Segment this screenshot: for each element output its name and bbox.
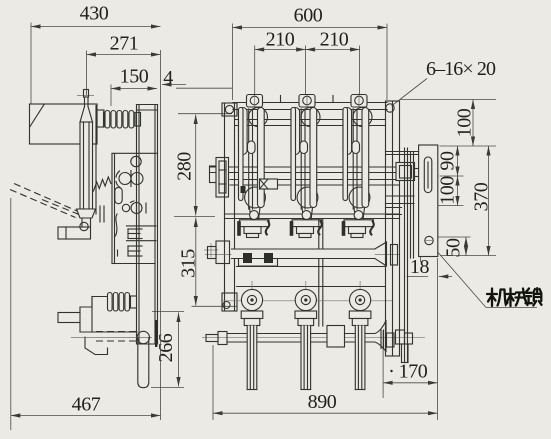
left frame plate [222,103,243,311]
bracket slot [424,157,432,193]
lower mechanism body [80,297,137,355]
dim 18 [407,256,453,278]
top bellows coupling [104,111,141,129]
svg-text:50: 50 [443,238,465,258]
middle shaft [208,241,375,264]
mounting bracket plate [419,145,438,257]
upper channel right view [386,152,419,155]
svg-text:370: 370 [471,182,493,211]
pole interrupter at 254.5 [238,108,270,238]
left support column [216,158,229,198]
svg-text:18: 18 [410,256,430,278]
lower drive shaft [206,332,375,345]
dim 266 [151,312,184,388]
drive rod cone [80,107,93,123]
spring anchor bracket with X [260,179,278,189]
dim 150 [111,66,157,107]
rod foot bracket [58,222,91,239]
lower shaft centerline [202,337,425,339]
label 6-16x20 with leader [392,58,496,106]
dim 100 upper right [401,100,497,147]
latch hook [116,214,118,236]
inner guide lines [96,106,158,264]
mechanism circle A [131,156,141,166]
dim 100 mid right [420,176,464,206]
dim 280 [174,88,233,216]
bell mouth [375,321,387,352]
pull rod stadium [137,331,149,387]
label mechanical-lock text "ji xie suo" (CJK drawn as strokes) [487,288,542,306]
mid channel [230,180,400,186]
bracket bolt (mechanical lock) [424,236,434,244]
svg-text:280: 280 [174,152,196,181]
bushing at 305.8 [295,281,317,390]
label mechanical-lock leader [432,246,537,308]
svg-text:430: 430 [80,3,109,25]
shaft right flange [375,242,398,266]
terminal clamp E upper [127,226,157,239]
right frame plate [386,101,400,356]
base frame line [237,286,385,288]
lower mech centerline [71,337,152,339]
small roller pair C [122,201,146,215]
dim 370 [471,146,493,256]
pole interrupter at 307.0 [290,108,322,238]
plate edge dark segment [155,320,157,347]
shaft boss [396,163,419,181]
dim 50 [434,237,496,258]
pole bracket 2 [299,95,315,108]
svg-text:210: 210 [320,29,349,51]
lower channel [225,214,400,219]
drive rod cap [84,90,89,98]
svg-text:210: 210 [266,29,295,51]
bushing centerline [222,300,392,302]
terminal clamp E lower [127,241,157,256]
svg-text:890: 890 [308,391,337,413]
shaft coupling block [327,326,345,348]
dim 430 [31,3,161,105]
crank lever [100,206,104,222]
svg-text:600: 600 [294,5,323,27]
base rail [237,266,386,268]
lower shaft right view [386,196,415,215]
dim 4 [162,67,186,89]
pole bracket 1 [247,95,263,108]
dim 210 right [306,29,360,98]
bolt block 2 [265,254,273,263]
svg-text:170: 170 [399,361,428,383]
drive rod body [80,122,93,209]
centerline cross [204,243,218,257]
side frame plate [137,105,158,345]
svg-text:4: 4 [163,67,173,89]
dim 315 [178,218,238,307]
svg-text:467: 467 [72,394,101,416]
dim 210 left [255,29,306,98]
drive link bar [319,219,323,326]
svg-text:271: 271 [110,33,139,55]
rail tick B [332,96,334,103]
dim 170 [383,330,437,398]
rail tick A [280,96,282,103]
dim 90 [437,146,464,176]
svg-text:266: 266 [155,333,177,362]
rod tip [82,218,91,227]
dim 600 [233,5,388,101]
shaft hanger bracket [239,259,278,267]
main drive shaft [210,166,400,183]
svg-text:100: 100 [437,176,459,205]
svg-text:6–16× 20: 6–16× 20 [426,58,496,80]
lower mechanism arm [58,313,80,323]
svg-text:150: 150 [120,66,149,88]
bottom couplings [381,330,413,363]
bushing at 360.1 [349,281,371,390]
pole1 latch dark block [241,187,245,193]
rod collar [77,209,96,218]
pole interrupter at 359.0 [342,108,374,238]
upper channel [235,120,386,126]
link bar B [411,152,414,258]
roller pair B [116,171,143,188]
drive rod neck [85,97,89,107]
frame bolt hole [386,104,394,112]
dim 271 [87,33,161,96]
bushing at 252 [241,281,263,390]
phantom handle dashed [10,184,79,218]
svg-text:90: 90 [437,151,459,171]
rod top centerline tick [77,95,94,97]
link bar A [405,148,408,363]
lower bellows [108,293,137,312]
middle shaft centerline [205,254,400,256]
coil spring [94,177,111,191]
slot stadium [115,187,122,203]
pole bracket 3 [351,95,367,108]
svg-text:100: 100 [454,108,476,137]
motor box [30,104,105,144]
bolt block 1 [244,254,252,263]
dim 467 [11,50,161,430]
top rail channel [233,103,387,110]
dim 890 [213,258,438,420]
